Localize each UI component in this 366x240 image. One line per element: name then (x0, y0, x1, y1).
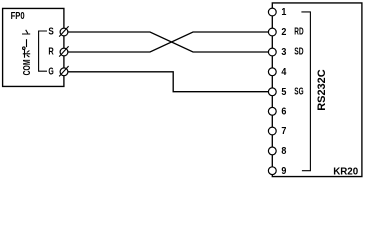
wire G to pin5 SG (68, 72, 268, 92)
svg-text:RS232C: RS232C (316, 69, 328, 111)
svg-text:FP0: FP0 (11, 11, 25, 22)
pin 3 (268, 47, 286, 58)
terminal G (59, 66, 68, 76)
pin 4 (268, 67, 286, 78)
svg-text:RD: RD (294, 27, 303, 38)
pin 1 (268, 7, 286, 18)
svg-text:6: 6 (281, 106, 286, 117)
bracket RS232C group (301, 12, 310, 171)
svg-text:2: 2 (281, 27, 286, 38)
svg-text:5: 5 (281, 87, 286, 98)
terminal R (59, 46, 68, 56)
svg-text:1: 1 (281, 7, 286, 18)
terminal S (59, 26, 68, 36)
wire R to pin2 RD (68, 32, 268, 52)
device box FP0 (3, 8, 64, 86)
svg-text:R: R (48, 47, 54, 58)
svg-text:S: S (48, 27, 54, 38)
bracket COM port group (39, 31, 47, 71)
pin 9 (268, 166, 286, 177)
svg-text:3: 3 (281, 47, 286, 58)
pin 2 (268, 27, 286, 38)
pin 8 (268, 146, 286, 157)
svg-text:8: 8 (281, 146, 286, 157)
svg-text:G: G (48, 67, 54, 78)
wire S to pin3 SD (68, 32, 268, 52)
svg-text:SD: SD (294, 47, 303, 58)
svg-text:9: 9 (281, 166, 286, 177)
svg-text:4: 4 (281, 67, 286, 78)
svg-text:7: 7 (281, 126, 286, 137)
label COMポート (vertical) (22, 30, 33, 76)
pin 7 (268, 126, 286, 137)
pin 6 (268, 106, 286, 117)
svg-text:KR20: KR20 (333, 165, 358, 177)
pin 5 (268, 87, 286, 98)
connector box KR20 (272, 3, 362, 177)
svg-text:SG: SG (294, 86, 303, 97)
svg-text:COM: COM (22, 59, 33, 75)
